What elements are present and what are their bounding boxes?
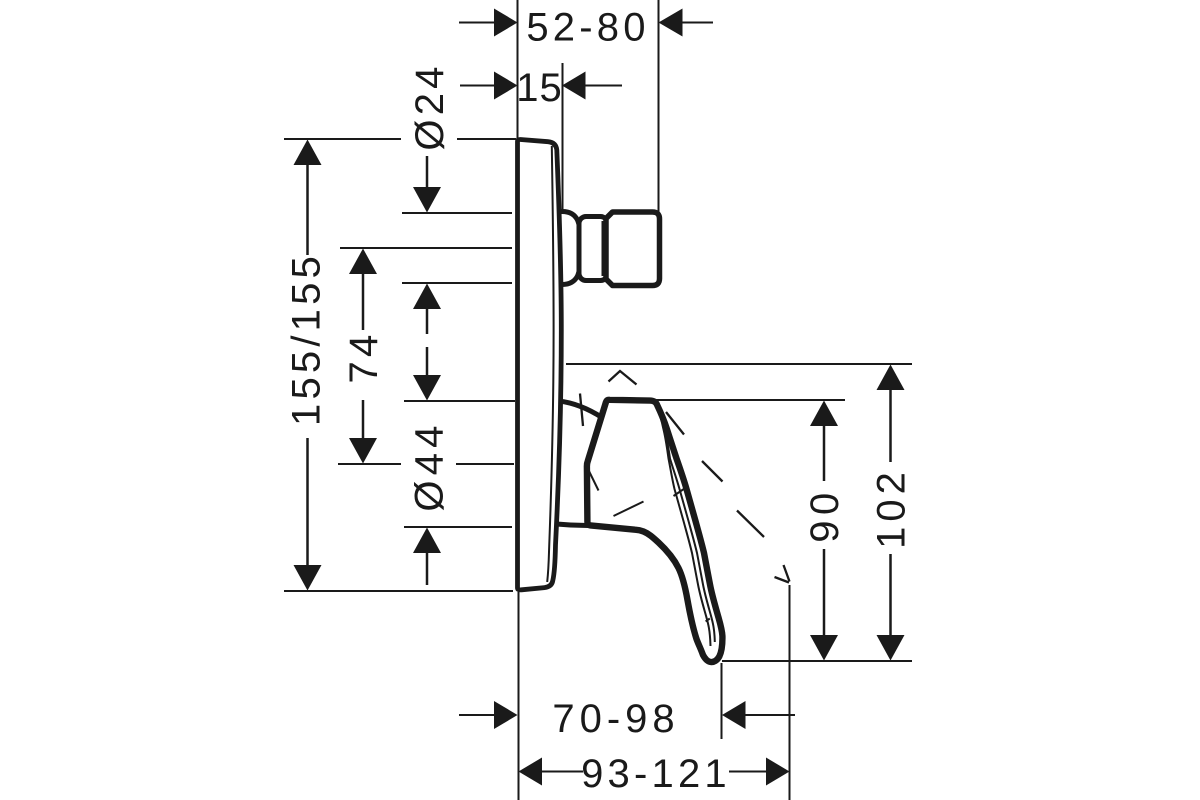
o-ring bump behind sleeve [557, 212, 581, 285]
arrowhead O24 up [413, 284, 441, 310]
extension line H2 (y=213 sleeve top) [402, 212, 512, 214]
arrowhead 102 up [877, 365, 905, 391]
dim 70-98 tails [459, 714, 795, 716]
extension line H5 (y=401 handle top) [404, 400, 515, 402]
plate front face line [547, 146, 553, 582]
stem O44 top [426, 347, 429, 376]
sleeve section 2 (cartridge) [606, 212, 660, 286]
stem O24 label [426, 156, 429, 189]
extension line H1 (y=139 plate top) [284, 138, 516, 140]
svg-text:155/155: 155/155 [285, 252, 329, 426]
svg-text:93-121: 93-121 [581, 752, 731, 796]
stem 74 top [362, 273, 365, 330]
arrowhead 93-121 right [766, 758, 790, 786]
svg-text:Ø24: Ø24 [408, 62, 452, 150]
stem 155/155 bottom [306, 438, 309, 566]
stem 102 top [889, 389, 892, 462]
svg-text:102: 102 [870, 467, 914, 549]
stem 155/155 top [306, 164, 309, 255]
extension line V3 (x=658.5) [658, 0, 660, 213]
swing dash 2 [702, 461, 723, 482]
arrowhead 155/155 up [294, 140, 322, 166]
extension line H4 (y=283 sleeve bottom) [402, 282, 512, 284]
arrowhead O44 down [413, 375, 441, 401]
stem O24 bottom [426, 308, 429, 334]
swing dash 3 [737, 511, 764, 538]
swing dash final [784, 565, 790, 582]
arrowhead 52-80 right [659, 9, 683, 37]
lever tick [674, 489, 685, 497]
svg-text:74: 74 [342, 331, 386, 384]
arrowhead 102 down [877, 635, 905, 661]
extension line V1 bottom [518, 592, 520, 800]
arrowhead 70-98 left [494, 701, 518, 729]
swing dash 1 [666, 412, 684, 435]
sleeve section 1 (stop ring) [579, 217, 608, 281]
stem 102 bottom [889, 554, 892, 636]
arrowhead 155/155 down [294, 565, 322, 591]
stem 74 bottom [362, 400, 365, 439]
extension line H11 (y=661 bottom right) [722, 660, 912, 662]
arrowhead 15 right [562, 72, 586, 100]
swing dash on collar [580, 394, 583, 427]
swing dash caret [609, 371, 637, 385]
extension line H7 (y=527 hub bottom) [404, 526, 512, 528]
extension line H3 (y=248 sleeve axis) [340, 247, 512, 249]
arrowhead 15 left [494, 72, 518, 100]
extension line V5 (x=789.5) [789, 585, 791, 800]
extension line V4 (x=721.5 handle tip) [721, 663, 723, 739]
svg-text:90: 90 [803, 487, 847, 543]
collar arc top [559, 401, 602, 418]
stem 90 bottom [823, 549, 826, 636]
extension line H10 (y=400 handle top right) [654, 399, 845, 401]
collar arc bottom [557, 524, 589, 526]
escutcheon plate [518, 139, 562, 589]
extension line H6 (y=464 handle axis) [338, 463, 514, 465]
stem 90 top [823, 425, 826, 481]
extension line V1 top (x=517.5) [517, 0, 519, 139]
extension line H8 (y=591 plate bottom) [284, 590, 513, 592]
arrowhead O24 down [413, 187, 441, 213]
lever inner line B [659, 404, 715, 642]
svg-text:15: 15 [516, 66, 563, 110]
extension line V2 (x=562) [562, 63, 564, 211]
sleeve section 1 inner line [602, 221, 604, 276]
hub detail line a [587, 466, 599, 491]
arrowhead O44 up [413, 528, 441, 554]
arrowhead 90 down [810, 635, 838, 661]
arrowhead 93-121 left [519, 758, 543, 786]
arrowhead 90 up [810, 401, 838, 427]
arrowhead 74 up [349, 249, 377, 275]
svg-text:70-98: 70-98 [552, 697, 679, 741]
svg-text:Ø44: Ø44 [408, 420, 452, 511]
extension line H9 (y=364 right top) [566, 363, 912, 365]
arrowhead 70-98 right [722, 701, 746, 729]
dim 52-80 tails [459, 22, 713, 24]
swing arc arrow stroke [775, 577, 790, 583]
arrowhead 52-80 left [494, 9, 518, 37]
lever inner line A [656, 405, 710, 646]
dim 93-121 segments [542, 771, 766, 773]
dim 15 tails [460, 85, 622, 87]
handle lever [587, 400, 723, 662]
arrowhead 74 down [349, 438, 377, 464]
hub detail line b [614, 502, 644, 517]
svg-text:52-80: 52-80 [526, 6, 649, 50]
stem O44 bottom [426, 552, 429, 585]
